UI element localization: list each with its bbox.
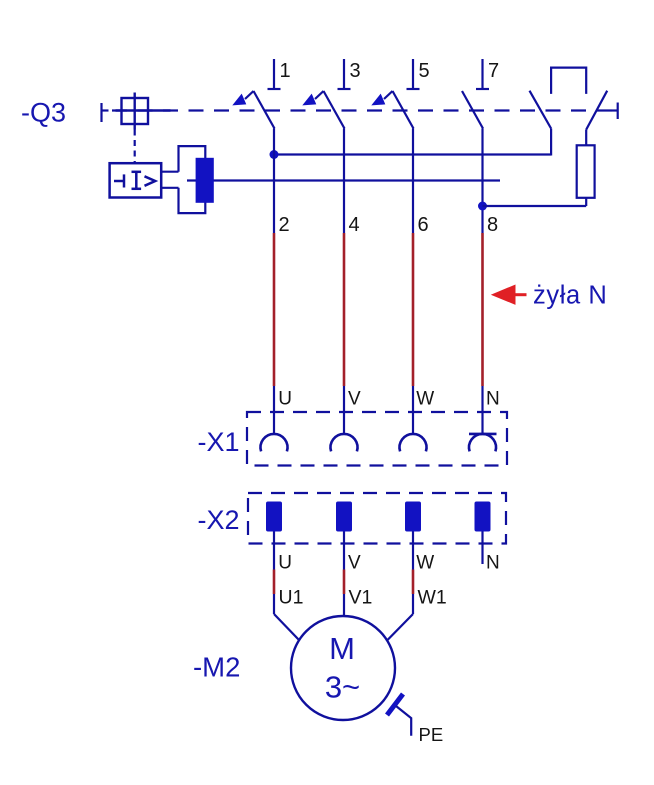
trip coil solid core [196, 158, 214, 203]
resistor [577, 145, 595, 198]
wire U below X2 [273, 532, 275, 570]
wire U1 red [273, 570, 276, 595]
junction dot pole 4 [478, 202, 487, 211]
pole 1 top lead [268, 59, 281, 89]
pole 1 contact blade [254, 91, 275, 129]
svg-text:5: 5 [419, 60, 430, 82]
mechanical linkage left end tick [102, 103, 109, 122]
svg-text:M: M [329, 631, 355, 666]
svg-text:U1: U1 [279, 587, 304, 609]
wire W1 into motor [388, 594, 414, 640]
terminal X2 W pin [405, 502, 421, 532]
svg-text:4: 4 [349, 214, 360, 236]
svg-text:W1: W1 [418, 587, 447, 609]
svg-text:U: U [278, 552, 292, 573]
terminal X1 U socket [261, 434, 288, 451]
mechanical linkage right end tick [611, 103, 617, 120]
wire W1 red [412, 570, 415, 595]
wire L1 red [273, 233, 276, 386]
pole 2 contact blade [324, 91, 345, 129]
PE terminal tick [387, 694, 403, 715]
wire N below X2 [481, 532, 483, 565]
svg-text:V1: V1 [349, 587, 373, 609]
wire PE [396, 706, 411, 736]
pole 4 top lead [476, 59, 489, 89]
wire pole 1 lower lead [273, 129, 275, 234]
wire resistor to aux contact [585, 130, 587, 146]
wire V into X1 [343, 386, 345, 434]
pole 2 trip arrow [302, 91, 323, 105]
svg-text:2: 2 [279, 214, 290, 236]
svg-text:V: V [348, 552, 361, 573]
svg-text:N: N [486, 389, 500, 410]
svg-text:N: N [486, 552, 500, 573]
wire V1 into motor [343, 594, 345, 617]
operating mechanism crossed box [116, 93, 171, 130]
svg-text:PE: PE [419, 724, 444, 745]
mechanical linkage dashed line [112, 109, 612, 111]
aux contact bridge [551, 68, 586, 94]
wire U into X1 [273, 386, 275, 434]
pole 3 top lead [407, 59, 420, 89]
wire N into X1 [481, 386, 483, 434]
wire pole 2 lower lead [343, 129, 345, 234]
terminal X1 V socket [331, 434, 358, 451]
wire resistor return [483, 198, 587, 206]
svg-text:7: 7 [488, 60, 499, 82]
svg-text:W: W [416, 389, 434, 410]
svg-text:8: 8 [487, 214, 498, 236]
svg-text:U: U [278, 389, 292, 410]
wire L2 red [343, 233, 346, 386]
terminal X1 N socket [469, 434, 497, 452]
svg-text:-M2: -M2 [193, 652, 240, 683]
motor M2 circle [291, 616, 395, 720]
pole 2 top lead [338, 59, 351, 89]
pole 4 contact blade [462, 91, 483, 129]
annotation arrow żyła N [491, 285, 527, 305]
pole 1 trip arrow [232, 91, 253, 105]
wire main horizontal through coil [187, 179, 500, 181]
wire W into X1 [412, 386, 414, 434]
terminal X2 U pin [266, 502, 282, 532]
svg-text:-Q3: -Q3 [21, 98, 66, 128]
residual current release box I> [110, 163, 162, 197]
terminal X2 V pin [336, 502, 352, 532]
svg-text:3~: 3~ [325, 670, 360, 705]
dashed link to residual current release [134, 130, 136, 164]
terminal strip X2 dashed box [248, 493, 506, 544]
wire W below X2 [412, 532, 414, 570]
wire pole 4 lower lead [481, 129, 483, 234]
svg-text:żyła N: żyła N [533, 282, 607, 310]
svg-text:1: 1 [280, 60, 291, 82]
wire N red [481, 233, 484, 386]
junction dot pole 1 [270, 150, 279, 159]
pole 3 trip arrow [371, 91, 392, 105]
terminal X1 W socket [400, 434, 427, 451]
wire V below X2 [343, 532, 345, 570]
terminal strip X1 dashed box [247, 412, 507, 466]
wire V1 red [343, 570, 346, 595]
svg-text:-X2: -X2 [198, 505, 240, 535]
aux contact right blade [586, 91, 607, 130]
svg-text:6: 6 [418, 214, 429, 236]
wire aux left lower lead [550, 129, 552, 156]
trip coil bracket outline [179, 146, 206, 213]
wires release box to trip coil [161, 172, 178, 188]
svg-text:V: V [348, 389, 361, 410]
terminal X2 N pin [475, 502, 491, 532]
wire U1 into motor [274, 594, 299, 640]
wire L3 red [412, 233, 415, 386]
svg-text:3: 3 [350, 60, 361, 82]
pole 3 contact blade [393, 91, 414, 129]
aux contact left blade [530, 91, 552, 129]
svg-text:-X1: -X1 [198, 427, 240, 457]
wire pole 3 lower lead [412, 129, 414, 234]
wire horizontal link to auxiliary contact [274, 153, 551, 155]
svg-text:W: W [416, 552, 434, 573]
